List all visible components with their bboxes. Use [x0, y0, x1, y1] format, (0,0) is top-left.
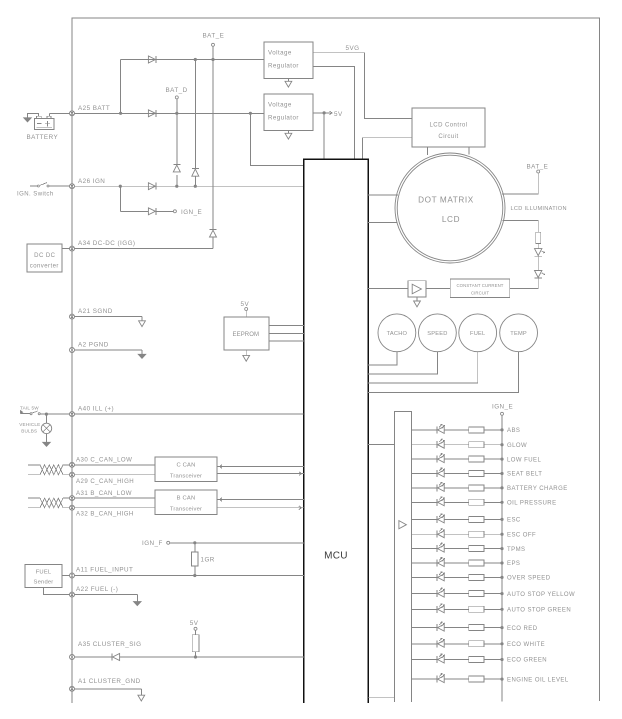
wire A11 row: [75, 575, 304, 577]
label Regulator U3: [268, 115, 299, 122]
diode D5 to BAT_E: [210, 230, 217, 237]
diode D7 IGN_E: [148, 208, 156, 215]
block LED driver U10: [395, 411, 412, 702]
svg-text:ESC: ESC: [507, 518, 521, 524]
svg-text:Circuit: Circuit: [438, 134, 458, 140]
svg-text:BAT_E: BAT_E: [203, 33, 225, 40]
wire LCD to BAT_E: [502, 173, 538, 194]
wire IGN_E bus: [501, 415, 503, 701]
svg-text:ENGINE OIL LEVEL: ENGINE OIL LEVEL: [507, 677, 569, 683]
battery ground: [24, 113, 39, 122]
node IGN_F: [167, 541, 170, 544]
svg-text:Voltage: Voltage: [268, 102, 292, 109]
wire LED2 to CCC: [510, 278, 538, 288]
wire CCAN rx: [217, 472, 304, 476]
junction R3-fuel: [193, 574, 196, 577]
svg-text:Voltage: Voltage: [268, 50, 292, 57]
LED indicator OVER SPEED: [412, 572, 551, 582]
svg-text:IGN_E: IGN_E: [181, 209, 202, 216]
svg-text:C CAN: C CAN: [176, 463, 195, 469]
LED indicator ECO RED: [412, 622, 538, 632]
svg-text:SEAT BELT: SEAT BELT: [507, 472, 542, 478]
svg-text:Regulator: Regulator: [268, 115, 299, 122]
wire MCU-LCD 1: [368, 194, 398, 196]
node BAT_E top: [212, 43, 215, 46]
junction A25-up: [119, 112, 122, 115]
block B CAN transceiver U9: [155, 490, 217, 515]
wire BCAN rx: [217, 506, 304, 510]
junction D4-IGN: [194, 185, 197, 188]
svg-text:5V: 5V: [241, 301, 250, 308]
svg-text:A21 SGND: A21 SGND: [78, 308, 113, 315]
svg-text:EPS: EPS: [507, 561, 520, 567]
terminal A32 B_CAN_HIGH: [70, 505, 75, 510]
svg-text:1GR: 1GR: [201, 557, 215, 564]
svg-text:A11 FUEL_INPUT: A11 FUEL_INPUT: [76, 567, 133, 574]
ground U3: [285, 131, 292, 140]
twisted pair C CAN: [28, 465, 70, 475]
label 5V EEPROM: [241, 301, 250, 308]
label A32 B_CAN_HIGH: [76, 510, 134, 517]
LED indicator TPMS: [412, 543, 526, 553]
svg-text:A26 IGN: A26 IGN: [78, 178, 105, 185]
wire VR2 feed to MCU: [250, 113, 303, 165]
IGN switch SW1: [30, 183, 70, 187]
LED indicator ENGINE OIL LEVEL: [412, 674, 569, 684]
terminal A34 DC-DC: [70, 246, 75, 251]
label A29 C_CAN_HIGH: [76, 478, 134, 485]
junction upper-195: [194, 58, 197, 61]
resistor R2 backlight: [536, 232, 541, 243]
label Voltage U2: [268, 50, 292, 57]
svg-text:TACHO: TACHO: [387, 331, 408, 337]
gauge FUEL M-FUEL: [459, 314, 497, 352]
svg-text:A2 PGND: A2 PGND: [78, 342, 109, 349]
node 5V pullup: [194, 627, 197, 630]
svg-text:BAT_D: BAT_D: [166, 87, 188, 94]
LED indicator ESC: [412, 514, 521, 524]
LED indicator BATTERY CHARGE: [412, 482, 568, 492]
svg-text:ABS: ABS: [507, 428, 520, 434]
junction IGN-E branch: [119, 185, 122, 188]
label A31 B_CAN_LOW: [76, 490, 132, 497]
label BAT_E right: [527, 164, 549, 171]
ground U2: [285, 79, 292, 88]
label LCD: [442, 215, 460, 224]
node IGN_E bus: [501, 412, 504, 415]
label A22 FUEL (-): [76, 586, 118, 593]
LED indicator OIL PRESSURE: [412, 497, 557, 507]
battery BT1: [35, 116, 54, 129]
wire LED1-LED2: [537, 256, 539, 270]
label VEHICLE: [19, 422, 40, 427]
wire EEPROM-MCU 1: [269, 324, 304, 326]
label B CAN: [177, 496, 196, 502]
LED indicator LOW FUEL: [412, 454, 542, 464]
junction BAT_D-IGN: [175, 185, 178, 188]
label A25 BATT: [78, 105, 110, 112]
svg-text:AUTO STOP GREEN: AUTO STOP GREEN: [507, 608, 571, 614]
svg-text:A35 CLUSTER_SIG: A35 CLUSTER_SIG: [78, 641, 141, 648]
ground bulb: [43, 434, 50, 447]
label IGN Switch: [17, 191, 54, 197]
wire VR2 out: [313, 112, 331, 114]
TAIL switch SW2: [21, 411, 70, 415]
label BATTERY: [27, 134, 59, 141]
LED LED1: [535, 249, 545, 257]
wire TEMP-MCU: [368, 352, 518, 393]
junction bulb: [45, 413, 48, 416]
label A35 CLUSTER_SIG: [78, 641, 141, 648]
wire MCU-driver 1: [368, 443, 394, 445]
LED indicator AUTO STOP YELLOW: [412, 588, 576, 598]
svg-text:5VG: 5VG: [346, 45, 360, 52]
svg-text:BULBS: BULBS: [21, 429, 37, 434]
svg-text:B CAN: B CAN: [177, 496, 196, 502]
terminal A1 CLUSTER_GND: [70, 686, 75, 691]
label C CAN: [176, 463, 195, 469]
diode D4: [192, 168, 199, 176]
wire 5VG: [313, 53, 412, 119]
twisted pair B CAN: [28, 498, 70, 508]
block FUEL sender: [25, 565, 62, 588]
node 5V EEPROM: [245, 308, 248, 311]
terminal A21 SGND: [70, 314, 75, 319]
svg-text:converter: converter: [30, 264, 59, 270]
svg-text:EEPROM: EEPROM: [232, 332, 259, 338]
svg-text:A34 DC-DC (IGG): A34 DC-DC (IGG): [78, 240, 135, 247]
op-amp driver buffer: [399, 521, 407, 529]
LED indicator ECO GREEN: [412, 654, 547, 664]
wire A31 row: [75, 497, 156, 499]
wire EEPROM-MCU 2: [269, 333, 304, 335]
svg-text:BATTERY: BATTERY: [27, 134, 59, 141]
wire A21 row: [75, 317, 143, 321]
label A26 IGN: [78, 178, 105, 185]
block DC DC converter: [27, 244, 62, 272]
svg-text:GLOW: GLOW: [507, 443, 527, 449]
block C CAN transceiver U8: [155, 457, 217, 482]
svg-text:OIL PRESSURE: OIL PRESSURE: [507, 501, 557, 507]
wire A29 row: [75, 474, 156, 476]
wire LCDctl stub2: [468, 147, 470, 154]
diode D3 BAT_D to IGN: [173, 165, 180, 172]
diode D6 IGN row: [148, 183, 156, 190]
label CIRCUIT U5: [471, 291, 489, 296]
label A2 PGND: [78, 342, 109, 349]
label A11 FUEL_INPUT: [76, 567, 133, 574]
label BAT_D: [166, 87, 188, 94]
gauge TACHO M-TACHO: [378, 314, 416, 352]
terminal A26 IGN: [70, 184, 75, 189]
svg-text:IGN_E: IGN_E: [492, 403, 513, 410]
wire A40 row: [75, 413, 304, 415]
wire IGN_E stub: [156, 210, 173, 212]
svg-text:CIRCUIT: CIRCUIT: [471, 291, 489, 296]
wire branch up: [121, 60, 264, 114]
junction R4: [194, 655, 197, 658]
resistor R4 pullup: [192, 630, 199, 657]
svg-text:Regulator: Regulator: [268, 63, 299, 70]
wire IGN_E branch: [120, 186, 148, 211]
wire 5V to MCU: [323, 113, 325, 159]
wire battery to A25: [49, 113, 69, 116]
label IGN_E bus: [492, 403, 513, 410]
wire A32 row: [75, 507, 156, 509]
wire FUEL-MCU: [368, 352, 478, 383]
label DOT MATRIX: [418, 196, 474, 205]
node IGN_E: [173, 210, 176, 213]
wire 5V-EEPROM: [245, 311, 247, 318]
svg-text:5V: 5V: [190, 620, 199, 627]
wire MCU to LCDctl: [363, 138, 412, 159]
svg-text:ESC OFF: ESC OFF: [507, 532, 536, 538]
MCU U1: [304, 159, 368, 703]
label 5V: [334, 111, 343, 118]
junction upper-BAT_E: [211, 58, 214, 61]
svg-text:A1 CLUSTER_GND: A1 CLUSTER_GND: [78, 678, 141, 685]
wire TACHO-MCU: [368, 352, 397, 365]
junction VR2 feed: [249, 112, 252, 115]
svg-text:LCD: LCD: [442, 215, 460, 224]
svg-text:TPMS: TPMS: [507, 547, 525, 553]
svg-text:A30 C_CAN_LOW: A30 C_CAN_LOW: [76, 457, 132, 464]
ground A1: [138, 695, 145, 701]
svg-text:BAT_E: BAT_E: [527, 164, 549, 171]
label BAT_E top: [203, 33, 225, 40]
diode D8 cluster: [112, 654, 120, 661]
svg-text:LCD ILLUMINATION: LCD ILLUMINATION: [511, 206, 567, 212]
svg-text:A25 BATT: A25 BATT: [78, 105, 110, 112]
vehicle bulb DS2: [41, 414, 51, 433]
wire sender-A22: [43, 588, 69, 595]
LED LED2: [535, 271, 545, 279]
label TAIL 5W: [20, 405, 39, 410]
wire MCU-driver 2: [368, 696, 394, 698]
label Sender: [34, 580, 54, 586]
label BULBS: [21, 429, 37, 434]
wire LCD to resistor: [503, 220, 539, 232]
svg-text:ECO RED: ECO RED: [507, 626, 538, 632]
svg-text:LOW FUEL: LOW FUEL: [507, 457, 541, 463]
diode D2 upper row: [148, 56, 156, 63]
block voltage regulator U3: [264, 94, 313, 131]
terminal A2 PGND: [70, 348, 75, 353]
wire A1 row: [75, 689, 142, 695]
svg-text:AUTO STOP YELLOW: AUTO STOP YELLOW: [507, 592, 575, 598]
label Voltage U3: [268, 102, 292, 109]
label Circuit U4: [438, 134, 458, 140]
resistor R3 1GR: [192, 543, 199, 576]
wire CCAN tx: [217, 465, 304, 469]
label FUEL: [36, 570, 52, 576]
node BAT_E right: [537, 170, 540, 173]
LED indicator EPS: [412, 557, 521, 567]
svg-text:MCU: MCU: [324, 551, 348, 562]
wire A22 row: [75, 595, 138, 602]
wire A25 BATT row: [75, 112, 265, 114]
diode D1 BATT row: [148, 110, 156, 117]
label MCU: [324, 551, 348, 562]
block voltage regulator U2: [264, 42, 313, 79]
svg-text:FUEL: FUEL: [470, 331, 485, 337]
LED indicator ESC OFF: [412, 529, 537, 539]
wire 5V-diode vertical: [194, 60, 196, 187]
wire EEPROM-MCU 3: [269, 340, 304, 342]
svg-text:IGN. Switch: IGN. Switch: [17, 191, 54, 197]
wire R2-LED1: [537, 243, 539, 248]
junction 5V: [323, 111, 326, 114]
label A34 DC-DC (IGG): [78, 240, 135, 247]
svg-text:A31 B_CAN_LOW: A31 B_CAN_LOW: [76, 490, 132, 497]
svg-text:SPEED: SPEED: [427, 331, 447, 337]
ground PGND: [138, 354, 145, 358]
svg-text:Sender: Sender: [34, 580, 54, 586]
junction IGN_F: [193, 541, 196, 544]
wire A35 row a: [75, 656, 113, 658]
wire A26 IGN row: [75, 185, 304, 187]
wire IGN_F row: [170, 542, 304, 544]
terminal A31 B_CAN_LOW: [70, 496, 75, 501]
block constant current circuit U5: [450, 279, 510, 297]
svg-text:A29 C_CAN_HIGH: A29 C_CAN_HIGH: [76, 478, 134, 485]
svg-text:A22 FUEL (-): A22 FUEL (-): [76, 586, 118, 593]
LED indicator GLOW: [412, 439, 528, 449]
svg-text:FUEL: FUEL: [36, 570, 52, 576]
svg-text:5V: 5V: [334, 111, 343, 118]
wire A34 row: [75, 248, 214, 250]
svg-text:OVER SPEED: OVER SPEED: [507, 576, 551, 582]
svg-text:Transceiver: Transceiver: [170, 474, 202, 480]
label CONSTANT CURRENT: [456, 283, 503, 288]
wire SPEED-MCU: [368, 352, 437, 374]
terminal A40 ILL: [70, 412, 75, 417]
wire VR1 out2: [313, 67, 354, 159]
wire BCAN tx: [217, 498, 304, 502]
label A21 SGND: [78, 308, 113, 315]
label LCD Control: [430, 122, 468, 128]
label IGN_E: [181, 209, 202, 216]
LED indicator AUTO STOP GREEN: [412, 604, 572, 614]
terminal A25 BATT: [70, 111, 75, 116]
terminal A35 CLUSTER_SIG: [70, 655, 75, 660]
label IGN_F: [142, 540, 163, 547]
label 1GR: [201, 557, 215, 564]
wire BAT_D vertical: [176, 99, 178, 186]
label A1 CLUSTER_GND: [78, 678, 141, 685]
ground A22: [134, 602, 141, 606]
svg-text:BATTERY CHARGE: BATTERY CHARGE: [507, 486, 568, 492]
op-amp buffer U6: [408, 281, 426, 297]
block EEPROM U7: [224, 317, 269, 350]
ground buffer: [414, 297, 421, 307]
svg-text:A32 B_CAN_HIGH: A32 B_CAN_HIGH: [76, 510, 134, 517]
label EEPROM: [232, 332, 259, 338]
label 5VG: [346, 45, 360, 52]
label Transceiver C: [170, 474, 202, 480]
DOT MATRIX LCD DS1: [395, 153, 505, 263]
terminal A22 FUEL: [70, 592, 75, 597]
svg-text:VEHICLE: VEHICLE: [19, 422, 40, 427]
LED indicator ECO WHITE: [412, 638, 545, 648]
wire MCU-buffer: [368, 287, 408, 289]
label converter: [30, 264, 59, 270]
wire buffer-CCC: [426, 287, 450, 289]
ground EEPROM: [243, 350, 250, 361]
terminal A11 FUEL_INPUT: [70, 573, 75, 578]
label Transceiver B: [170, 507, 202, 513]
svg-text:DC DC: DC DC: [34, 253, 55, 259]
label A30 C_CAN_LOW: [76, 457, 132, 464]
LED indicator ABS: [412, 424, 521, 434]
svg-text:TEMP: TEMP: [510, 331, 527, 337]
ground SGND: [139, 321, 146, 327]
svg-text:DOT MATRIX: DOT MATRIX: [418, 196, 474, 205]
svg-text:Transceiver: Transceiver: [170, 507, 202, 513]
svg-text:IGN_F: IGN_F: [142, 540, 163, 547]
wire A2 row: [75, 350, 143, 354]
wire A30 row: [75, 464, 156, 466]
wire DCDC to A34: [62, 248, 70, 250]
terminal A29 C_CAN_HIGH: [70, 472, 75, 477]
gauge TEMP M-TEMP: [500, 314, 538, 352]
node 5V arrow: [329, 111, 332, 115]
label 5V pullup: [190, 620, 199, 627]
label LCD ILLUMINATION: [511, 206, 567, 212]
label DC DC: [34, 253, 55, 259]
label Regulator U2: [268, 63, 299, 70]
terminal A30 C_CAN_LOW: [70, 462, 75, 467]
svg-text:A40 ILL (+): A40 ILL (+): [78, 406, 114, 413]
svg-text:LCD Control: LCD Control: [430, 122, 468, 128]
wire A35 row b: [120, 656, 304, 658]
svg-text:CONSTANT CURRENT: CONSTANT CURRENT: [456, 283, 503, 288]
junction BAT_D row: [175, 112, 178, 115]
label A40 ILL (+): [78, 406, 114, 413]
wire MCU-LCD 2: [368, 221, 397, 223]
node BAT_D: [175, 96, 178, 99]
gauge SPEED M-SPEED: [419, 314, 457, 352]
svg-text:ECO GREEN: ECO GREEN: [507, 658, 547, 664]
svg-text:ECO WHITE: ECO WHITE: [507, 642, 545, 648]
svg-text:TAIL 5W: TAIL 5W: [20, 405, 39, 410]
wire LCDctl stub1: [426, 147, 428, 155]
wire BAT_E vertical: [212, 46, 214, 248]
block LCD control circuit U4: [412, 108, 485, 147]
wire sender-A11: [62, 575, 70, 577]
LED indicator SEAT BELT: [412, 468, 543, 478]
